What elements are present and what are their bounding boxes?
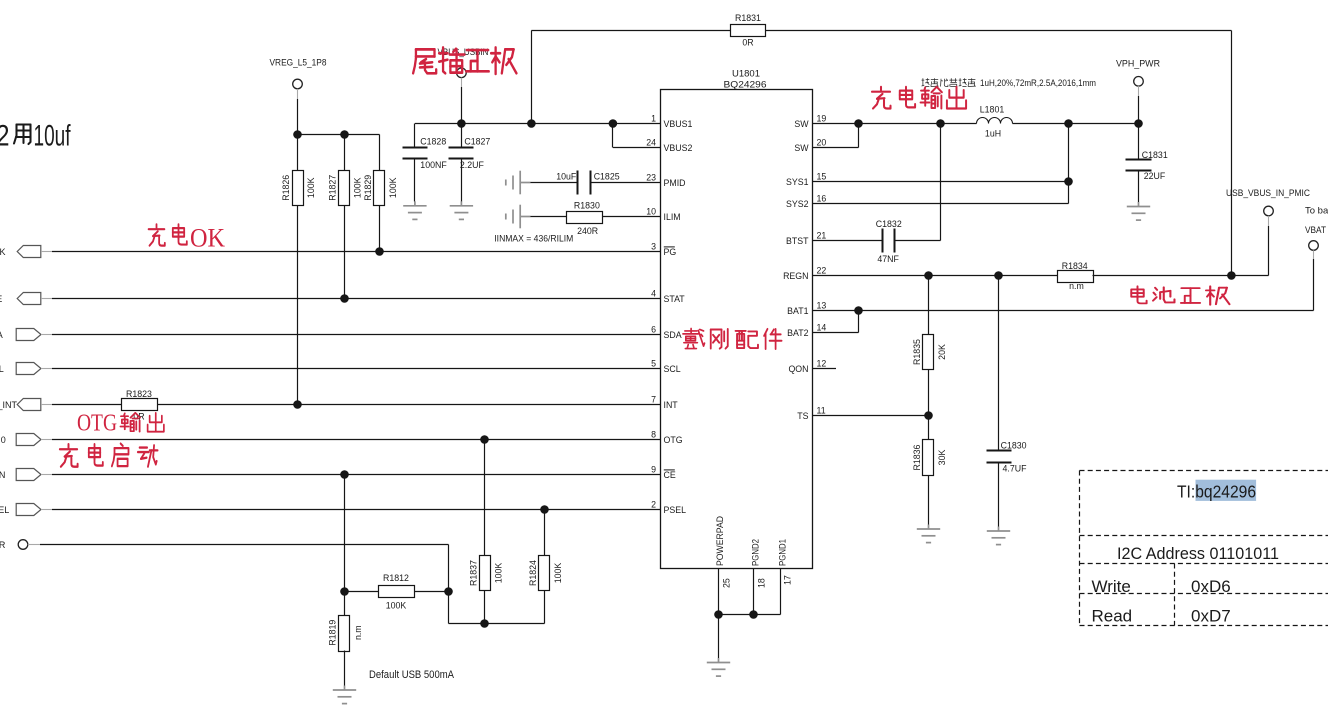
svg-text:SCL: SCL	[664, 364, 681, 374]
pin 12 QON	[788, 358, 826, 374]
svg-text:5: 5	[651, 358, 656, 368]
svg-text:17: 17	[783, 575, 793, 585]
svg-text:4.7UF: 4.7UF	[1003, 464, 1028, 474]
svg-text:STAT: STAT	[664, 294, 686, 304]
svg-text:E: E	[0, 294, 2, 304]
svg-text:SYS1: SYS1	[786, 177, 809, 187]
ground for POWERPAD	[707, 658, 730, 676]
svg-text:100NF: 100NF	[420, 160, 447, 170]
annotation 戴刚配件	[683, 328, 782, 349]
wire INT net left segment	[52, 404, 121, 406]
svg-text:USB_VBUS_IN_PMIC: USB_VBUS_IN_PMIC	[1226, 188, 1310, 199]
wire SYS1	[813, 177, 1073, 186]
svg-text:To bat: To bat	[1305, 206, 1328, 217]
svg-text:R1830: R1830	[574, 201, 600, 211]
pin 16 SYS2	[786, 193, 826, 209]
svg-text:1uH,20%,72mR,2.5A,2016,1mm: 1uH,20%,72mR,2.5A,2016,1mm	[980, 78, 1096, 88]
svg-text:16: 16	[817, 193, 827, 203]
svg-text:POWERPAD: POWERPAD	[715, 516, 725, 566]
ground sideways for R1830	[506, 205, 531, 229]
resistor R1823	[122, 389, 158, 422]
svg-text:7: 7	[651, 394, 656, 404]
pin 2 PSEL	[651, 499, 686, 515]
svg-text:PGND2: PGND2	[751, 539, 761, 566]
port EL connector	[0, 504, 52, 516]
port 0 connector	[1, 434, 52, 446]
svg-text:15: 15	[817, 171, 827, 181]
wire BAT2 branch	[813, 311, 859, 333]
annotation OTG输出	[77, 411, 164, 437]
svg-text:C1830: C1830	[1001, 441, 1027, 451]
svg-text:EL: EL	[0, 505, 9, 515]
svg-text:6: 6	[651, 324, 656, 334]
svg-text:VBAT: VBAT	[1305, 225, 1326, 236]
wire VREG vertical and bus	[293, 99, 379, 171]
svg-text:47NF: 47NF	[877, 254, 899, 264]
svg-text:22UF: 22UF	[1144, 171, 1166, 181]
svg-text:BTST: BTST	[786, 236, 809, 246]
pin 7 INT	[651, 394, 678, 410]
svg-text:R1812: R1812	[383, 573, 409, 583]
svg-text:n.m: n.m	[1069, 281, 1084, 291]
svg-text:19: 19	[817, 113, 827, 123]
svg-text:30K: 30K	[937, 450, 947, 466]
annotation 充电输出	[872, 87, 966, 109]
text 2用10uf note	[0, 120, 71, 153]
svg-text:SW: SW	[794, 119, 809, 129]
wire TS net	[813, 411, 933, 420]
svg-text:0xD7: 0xD7	[1191, 607, 1231, 626]
capacitor C1830	[987, 276, 1028, 527]
svg-text:PG: PG	[664, 247, 677, 257]
wire PSEL net	[52, 505, 661, 514]
inductor L1801	[977, 105, 1013, 139]
svg-text:100K: 100K	[553, 563, 563, 584]
svg-text:R1819: R1819	[328, 620, 338, 646]
op-amp U1801 BQ24296 IC body	[661, 69, 813, 569]
resistor R1819	[328, 616, 363, 686]
svg-text:R1831: R1831	[735, 13, 761, 23]
resistor R1836	[912, 416, 947, 525]
net label VPH_PWR	[1116, 59, 1160, 97]
resistor R1835	[912, 276, 947, 416]
svg-text:20: 20	[817, 137, 827, 147]
pin 17 PGND1	[778, 539, 793, 585]
svg-text:R1837: R1837	[468, 560, 478, 586]
resistor R1834	[1058, 261, 1094, 291]
port _INT connector	[0, 399, 52, 411]
port K connector	[0, 246, 52, 258]
terminal VBAT	[1309, 241, 1319, 259]
svg-text:_INT: _INT	[0, 400, 17, 410]
svg-text:Default USB 500mA: Default USB 500mA	[369, 669, 455, 681]
svg-text:100K: 100K	[388, 177, 398, 198]
pin 1 VBUS1	[651, 113, 692, 129]
pin 23 PMID	[646, 172, 685, 188]
svg-text:100K: 100K	[493, 563, 503, 584]
port A connector	[0, 329, 52, 341]
ground for C1827	[450, 201, 473, 219]
pin 9 CE	[651, 464, 676, 480]
net label VREG_L5_1P8	[270, 58, 327, 100]
svg-text:0xD6: 0xD6	[1191, 577, 1231, 596]
svg-text:1uH: 1uH	[985, 129, 1001, 139]
svg-text:BQ24296: BQ24296	[724, 79, 767, 89]
wire INT net right segment	[157, 400, 661, 409]
pin 24 VBUS2	[646, 137, 692, 153]
svg-text:18: 18	[757, 578, 767, 588]
svg-text:PGND1: PGND1	[778, 539, 788, 566]
svg-text:4: 4	[651, 288, 656, 298]
svg-text:8: 8	[651, 429, 656, 439]
svg-text:L1801: L1801	[980, 105, 1005, 115]
wire SDA net	[52, 334, 661, 336]
resistor R1827	[328, 171, 363, 206]
svg-text:R1823: R1823	[126, 389, 152, 399]
svg-text:1: 1	[651, 113, 656, 123]
wire R1831 net left/vertical	[531, 31, 730, 124]
wire PG net (charge OK)	[52, 247, 661, 256]
svg-text:SW: SW	[794, 143, 809, 153]
svg-text:13: 13	[817, 300, 827, 310]
wire VBAT to BAT	[1313, 259, 1315, 311]
pin 5 SCL	[651, 358, 681, 374]
svg-text:14: 14	[817, 322, 827, 332]
ground sideways for C1825	[506, 171, 531, 195]
svg-text:OTG: OTG	[664, 435, 683, 445]
svg-text:VBUS1: VBUS1	[664, 119, 693, 129]
svg-text:23: 23	[646, 172, 656, 182]
pin 13 BAT1	[787, 300, 826, 316]
svg-text:9: 9	[651, 464, 656, 474]
svg-text:C1827: C1827	[464, 137, 490, 147]
svg-text:n.m: n.m	[353, 625, 363, 640]
svg-text:CL: CL	[0, 364, 4, 374]
wire SW pin20 branch	[813, 124, 859, 148]
ground for C1830	[987, 527, 1010, 545]
wire R1827 bottom to STAT	[344, 206, 346, 299]
svg-text:R1835: R1835	[912, 339, 922, 365]
capacitor C1832	[876, 124, 941, 264]
resistor R1812	[345, 573, 449, 610]
svg-text:OTG: OTG	[77, 411, 117, 437]
svg-text:10uF: 10uF	[556, 172, 577, 182]
svg-text:OK: OK	[190, 224, 225, 253]
svg-text:C1831: C1831	[1142, 150, 1168, 160]
svg-text:ILIM: ILIM	[664, 212, 681, 222]
net label VBUS_USBIN	[438, 47, 489, 87]
resistor R1831	[731, 13, 766, 48]
wire SYS2	[813, 124, 1069, 204]
wire R1831 net right/vertical	[766, 31, 1232, 276]
svg-text:I2C Address 01101011: I2C Address 01101011	[1117, 544, 1279, 563]
svg-text:240R: 240R	[577, 226, 598, 236]
wire VPH_PWR drop	[1138, 96, 1140, 124]
ground for R1819	[333, 686, 356, 704]
svg-text:VBUS2: VBUS2	[664, 143, 693, 153]
net label USB_VBUS_IN_PMIC	[1226, 188, 1310, 226]
svg-text:R1836: R1836	[912, 444, 922, 470]
svg-text:SYS2: SYS2	[786, 199, 809, 209]
svg-text:R1827: R1827	[328, 175, 338, 201]
svg-text:0R: 0R	[742, 38, 753, 48]
port CL connector	[0, 363, 52, 375]
annotation 充电启动	[60, 444, 158, 467]
svg-text:100K: 100K	[353, 177, 363, 198]
pin 6 SDA	[651, 324, 682, 340]
svg-text:21: 21	[817, 230, 827, 240]
svg-text:Read: Read	[1092, 607, 1133, 626]
wire SW net with junctions	[813, 119, 1143, 128]
svg-text:TI:bq24296: TI:bq24296	[1177, 482, 1256, 502]
wire BTST left	[813, 240, 883, 242]
pin 11 TS	[797, 405, 825, 421]
svg-text:C1825: C1825	[594, 172, 620, 182]
resistor R1829	[363, 171, 398, 206]
capacitor C1827	[449, 124, 491, 202]
svg-text:12: 12	[817, 358, 827, 368]
annotation 电池正极	[1131, 286, 1229, 304]
pin 14 BAT2	[787, 322, 826, 338]
svg-text:BAT2: BAT2	[787, 328, 808, 338]
wire R1829 bottom to PG	[379, 206, 381, 252]
pin 8 OTG	[651, 429, 683, 445]
capacitor C1825 10uF	[530, 171, 660, 195]
capacitor C1831	[1126, 124, 1168, 203]
pin 20 SW	[794, 137, 826, 153]
pin 4 STAT	[651, 288, 685, 304]
svg-text:IINMAX = 436/RILIM: IINMAX = 436/RILIM	[494, 233, 573, 243]
svg-text:20K: 20K	[937, 344, 947, 360]
table I2C address info	[1080, 471, 1328, 626]
capacitor C1828	[403, 124, 448, 202]
svg-text:11: 11	[817, 405, 826, 415]
port N connector	[0, 469, 52, 481]
wire CE vertical to R1812/R1819	[340, 475, 349, 616]
port R terminal	[0, 540, 40, 550]
svg-text:2.2UF: 2.2UF	[460, 160, 485, 170]
port E connector	[0, 293, 52, 305]
svg-text:QON: QON	[788, 364, 808, 374]
wire BAT net	[813, 306, 1314, 315]
pin 10 ILIM	[646, 206, 680, 222]
resistor R1824	[528, 510, 563, 591]
svg-text:SDA: SDA	[664, 330, 682, 340]
wire VBUS_USBIN drop	[461, 87, 463, 124]
annotation 尾插正极	[413, 47, 516, 73]
pin 25 POWERPAD	[715, 516, 732, 588]
svg-text:U1801: U1801	[732, 69, 760, 79]
svg-text:INT: INT	[664, 400, 679, 410]
wire REGN net	[813, 271, 1058, 280]
wire VBUS bus	[415, 119, 661, 128]
pin 15 SYS1	[786, 171, 826, 187]
svg-text:25: 25	[722, 578, 732, 588]
ground for C1828	[403, 201, 426, 219]
wire CE net	[52, 470, 661, 479]
svg-text:C1828: C1828	[420, 137, 446, 147]
svg-text:REGN: REGN	[783, 271, 808, 281]
svg-text:K: K	[0, 247, 6, 257]
text inductor spec	[922, 78, 1097, 88]
svg-text:24: 24	[646, 137, 656, 147]
ground for R1836	[917, 525, 940, 543]
wire SCL net	[52, 368, 661, 370]
svg-text:CE: CE	[664, 470, 676, 480]
svg-text:TS: TS	[797, 411, 808, 421]
wire VBUS2 branch	[613, 124, 661, 148]
annotation 充电OK	[149, 224, 226, 253]
svg-text:R1829: R1829	[363, 175, 373, 201]
wire OTG net	[52, 435, 661, 444]
wire STAT net	[52, 294, 661, 303]
svg-text:R1826: R1826	[281, 175, 291, 201]
svg-text:10uf: 10uf	[34, 120, 71, 153]
pin 21 BTST	[786, 230, 826, 246]
resistor R1830	[530, 201, 660, 237]
svg-text:2: 2	[0, 120, 10, 153]
svg-text:R1824: R1824	[528, 560, 538, 586]
svg-text:10: 10	[646, 206, 656, 216]
wire REGN right to USB_VBUS_IN_PMIC	[1093, 226, 1269, 280]
svg-text:C1832: C1832	[876, 219, 902, 229]
svg-text:VREG_L5_1P8: VREG_L5_1P8	[270, 58, 327, 69]
svg-text:Write: Write	[1092, 577, 1131, 596]
wire R1826 bottom to INT	[297, 206, 299, 405]
pin 3 PG	[651, 241, 676, 257]
svg-text:100K: 100K	[306, 177, 316, 198]
resistor R1826	[281, 171, 316, 206]
svg-text:0: 0	[1, 435, 6, 445]
wire R terminal net	[40, 545, 545, 628]
svg-text:PMID: PMID	[664, 178, 686, 188]
svg-text:PSEL: PSEL	[664, 505, 687, 515]
wire POWERPAD/PGND bus	[714, 569, 780, 659]
svg-text:2: 2	[651, 499, 656, 509]
svg-text:R1834: R1834	[1062, 261, 1088, 271]
svg-text:A: A	[0, 330, 3, 340]
svg-text:100K: 100K	[386, 600, 407, 610]
svg-text:VPH_PWR: VPH_PWR	[1116, 59, 1160, 70]
pin 22 REGN	[783, 265, 826, 281]
pin 19 SW	[794, 113, 826, 129]
ground for C1831	[1127, 202, 1150, 220]
wire QON stub	[813, 368, 837, 370]
svg-text:N: N	[0, 470, 5, 480]
svg-text:3: 3	[651, 241, 656, 251]
resistor R1837	[468, 440, 503, 624]
svg-text:22: 22	[817, 265, 827, 275]
svg-text:R: R	[0, 540, 6, 550]
pin 18 PGND2	[751, 539, 767, 588]
svg-text:BAT1: BAT1	[787, 306, 808, 316]
